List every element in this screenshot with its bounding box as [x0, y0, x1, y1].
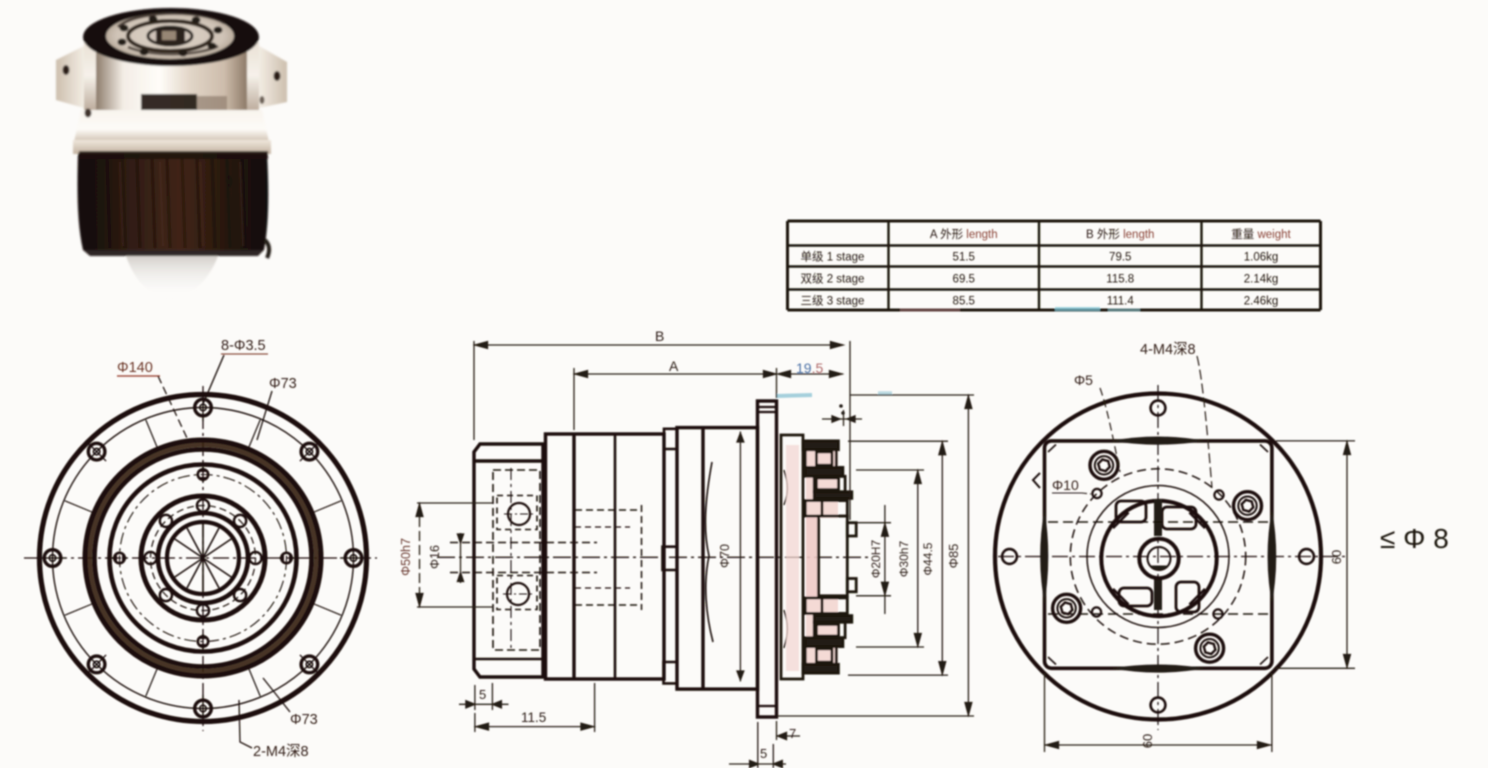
svg-text:7: 7: [789, 726, 796, 741]
right view: boss chamfers: [1189, 513, 1205, 529]
middle view: internal gear dashed lines: [641, 505, 643, 610]
svg-text:Φ85: Φ85: [946, 544, 961, 569]
svg-text:重量 weight: 重量 weight: [1231, 227, 1291, 241]
right view: body circle segments behind plate: [1111, 437, 1205, 445]
middle view: break curves: [705, 462, 713, 642]
dimension phi50h7: [417, 502, 493, 504]
svg-text:≤ Φ 8: ≤ Φ 8: [1380, 523, 1449, 554]
photo: bottom fade / shaft shadow: [126, 256, 218, 298]
photo: dark ribbed drum: [78, 153, 269, 250]
left view (output face): [24, 386, 377, 731]
left view: bore spline marks: [202, 524, 204, 592]
dimension phi20H7: [856, 522, 891, 524]
svg-text:2.14kg: 2.14kg: [1244, 274, 1279, 286]
svg-text:111.4: 111.4: [1107, 295, 1135, 307]
svg-text:双级 2 stage: 双级 2 stage: [801, 273, 865, 286]
dimension phi70: [739, 432, 741, 682]
svg-text:2-M4深8: 2-M4深8: [253, 743, 309, 760]
svg-text:69.5: 69.5: [953, 274, 975, 286]
svg-text:Φ70: Φ70: [718, 544, 732, 568]
svg-text:三级 3 stage: 三级 3 stage: [801, 294, 865, 307]
left view: housing circle: [110, 465, 297, 652]
photo: bell flange: [74, 110, 269, 142]
right view: key bars: [1154, 499, 1162, 536]
right view: dashed construction lines: [1048, 521, 1268, 523]
scan artifact: cyan smudge under table: [1055, 307, 1100, 311]
rear coupling bore: [819, 516, 848, 596]
left view: output boss circle: [158, 513, 248, 603]
dimension phi44.5: [848, 440, 948, 442]
svg-text:115.8: 115.8: [1106, 274, 1134, 286]
dimension 5 (front boss): [474, 685, 476, 710]
middle view: keyway pockets (dashed) with holes: [497, 496, 537, 530]
middle view: main outline: [437, 393, 892, 717]
left view: 8 outer mounting holes 8-3.5: [195, 399, 212, 416]
left view: annulus radial marks: [249, 420, 261, 448]
photo: drum ribs: [92, 158, 95, 248]
right view (input face): [995, 385, 1345, 730]
middle view: shaft hidden lines: [450, 542, 597, 544]
left view: center lines: [24, 557, 377, 559]
svg-text:Φ5: Φ5: [1074, 372, 1093, 388]
dimension phi85: [850, 394, 974, 396]
svg-text:51.5: 51.5: [953, 252, 975, 264]
dimension phi16: [460, 533, 462, 583]
svg-text:11.5: 11.5: [521, 710, 546, 725]
left view: inner bolt circle (dashed): [151, 506, 256, 611]
dimension phi30h7: [856, 469, 924, 471]
rear adapter pink tint: [786, 445, 799, 671]
rear adapter plate: [781, 435, 803, 679]
left view: inner housing circle: [141, 496, 265, 620]
right view dimensions: [1045, 341, 1356, 752]
svg-text:Φ140: Φ140: [117, 360, 153, 376]
svg-text:Φ73: Φ73: [290, 712, 318, 728]
photo: face bolt holes: [208, 43, 217, 50]
scan artifact: blue smudge above flange: [776, 395, 812, 396]
middle view: hidden bore of front block (dashed): [493, 470, 540, 650]
dimension 5 (flange step): [757, 722, 759, 768]
left view: 8 output flange holes: [197, 499, 209, 511]
svg-text:A: A: [669, 358, 679, 374]
left view labels: [117, 338, 318, 760]
svg-text:5: 5: [479, 687, 486, 702]
dimension 11.5: [594, 683, 596, 732]
right view: center hole: [1139, 539, 1178, 578]
svg-text:79.5: 79.5: [1109, 252, 1131, 264]
right view: bolt circle (dashed): [1070, 469, 1245, 644]
svg-text:Φ73: Φ73: [269, 376, 297, 392]
svg-text:B 外形 length: B 外形 length: [1086, 228, 1154, 241]
middle view: mounting flange: [758, 401, 777, 717]
left view: outer bolt circle: [53, 408, 354, 709]
photo: trunnion flange band: [84, 42, 259, 116]
left view: bolt circle of 4 relief holes (dash-dot): [120, 475, 287, 642]
left view: outer flange circle: [40, 395, 367, 722]
middle view: housing tabs: [664, 429, 677, 449]
svg-text:Φ10: Φ10: [1052, 477, 1079, 493]
right view: square flange plate: [1045, 441, 1272, 668]
middle view: output front block: [474, 444, 543, 677]
dimension 60 (right side): [1276, 440, 1355, 442]
svg-text:2.46kg: 2.46kg: [1244, 295, 1279, 307]
right view: center lines: [998, 556, 1345, 558]
right view: key slots: [1116, 501, 1146, 522]
svg-text:Φ44.5: Φ44.5: [921, 542, 935, 575]
left view: 4 pointed relief holes 2-M4: [198, 469, 208, 479]
svg-text:1.06kg: 1.06kg: [1244, 252, 1279, 264]
dimension 7 (flange thickness): [776, 721, 778, 740]
svg-text:B: B: [655, 328, 664, 344]
dimension 1 (flange pilot): [822, 418, 862, 420]
right view: corner chamfer marks: [1048, 445, 1268, 665]
svg-text:60: 60: [1329, 550, 1344, 564]
left view: gear ring double circle with shading: [90, 445, 316, 671]
middle view: rear stepped assembly: [781, 435, 856, 679]
rear step stack bottom: [805, 598, 847, 614]
photo: polished cylinder body: [96, 48, 247, 135]
svg-text:Φ20H7: Φ20H7: [869, 540, 883, 579]
middle view: main housing body: [677, 428, 758, 689]
photo: ear holes: [63, 65, 70, 75]
svg-text:19.5: 19.5: [796, 360, 823, 376]
svg-text:A 外形 length: A 外形 length: [930, 228, 998, 241]
left view: center bore: [167, 522, 239, 594]
dimension B (overall length): [473, 341, 475, 440]
svg-text:85.5: 85.5: [953, 295, 975, 307]
svg-text:5: 5: [760, 746, 767, 761]
svg-text:Φ50h7: Φ50h7: [399, 538, 413, 576]
right view: 4 small holes on bolt circle: [1092, 489, 1101, 498]
table grid: [788, 220, 1321, 223]
right view: center boss: [1101, 501, 1216, 616]
right view: outer circle: [995, 394, 1321, 720]
rear step stack top: [803, 441, 838, 450]
svg-text:单级 1 stage: 单级 1 stage: [801, 251, 865, 264]
middle view dimensions: [399, 328, 974, 768]
svg-text:8-Φ3.5: 8-Φ3.5: [221, 338, 266, 354]
middle view: ring-gear front section: [546, 434, 665, 679]
svg-text:60: 60: [1140, 734, 1155, 748]
photo: output face dark ring: [83, 8, 259, 66]
right view: 4 socket head cap screws: [1090, 451, 1118, 479]
dimension 19.5: [778, 373, 843, 375]
svg-text:Φ16: Φ16: [428, 545, 442, 569]
specification table: [788, 221, 1321, 310]
product photo (planetary gearbox): [56, 8, 287, 298]
svg-text:4-M4深8: 4-M4深8: [1140, 341, 1196, 358]
right view: 4 rim holes: [1151, 401, 1166, 416]
right view: pilot circle: [1087, 486, 1229, 628]
dimension A: [573, 368, 575, 430]
dimension 60 (bottom): [1044, 673, 1046, 752]
middle view: center line: [437, 556, 872, 558]
svg-text:Φ30h7: Φ30h7: [897, 541, 911, 578]
